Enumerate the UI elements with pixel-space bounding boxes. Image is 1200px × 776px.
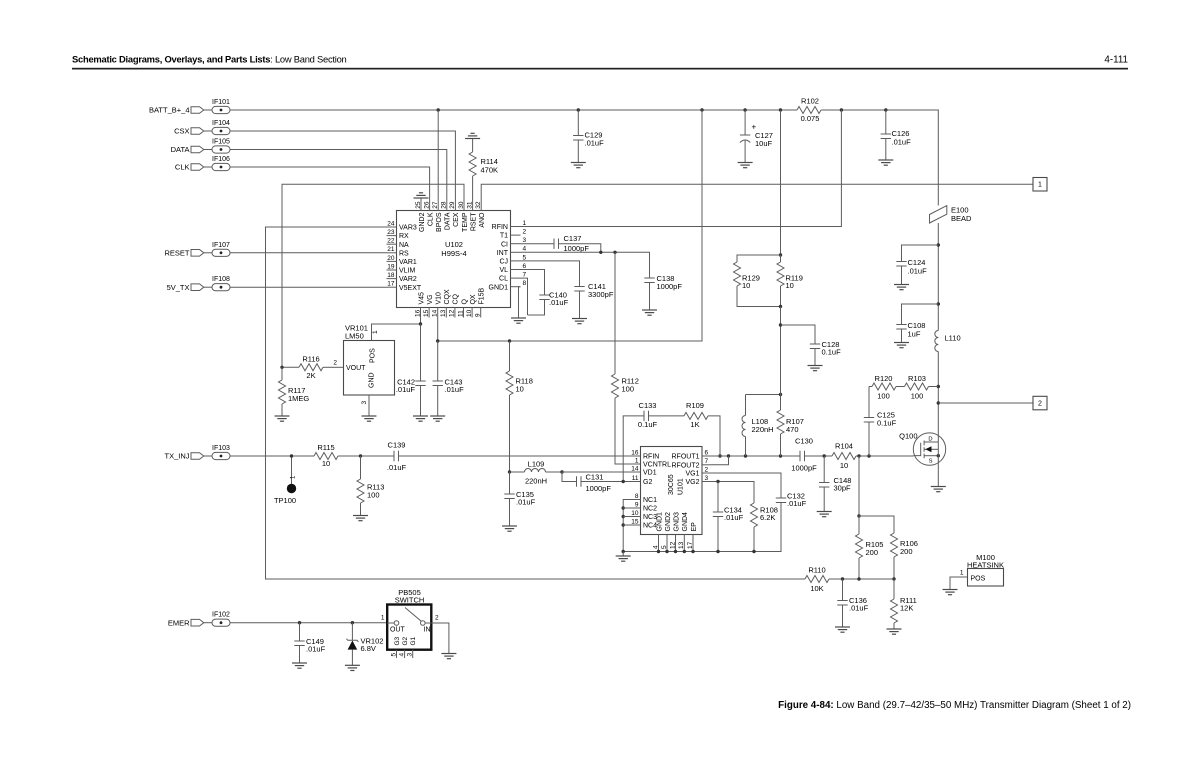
U102 pin 24 VAR3: [387, 220, 417, 231]
svg-text:NC2: NC2: [643, 506, 657, 513]
junction C127 tap: [743, 108, 746, 111]
svg-text:C133: C133: [639, 401, 657, 410]
capacitor C139: [387, 441, 407, 473]
capacitor C126: [881, 110, 911, 160]
wire CL pin 7 to C140 bottom: [521, 278, 528, 315]
svg-text:R104: R104: [835, 442, 853, 451]
capacitor C133: [623, 401, 684, 482]
U102 pin 2 T1: [500, 229, 527, 240]
svg-text:10: 10: [631, 510, 639, 517]
svg-text:200: 200: [866, 548, 879, 557]
test point TP100: [274, 456, 297, 505]
junction R113 top: [359, 454, 362, 457]
svg-text:GND3: GND3: [673, 512, 680, 532]
svg-text:TX_INJ: TX_INJ: [164, 452, 189, 461]
svg-text:R103: R103: [908, 374, 926, 383]
junction C137 to INT: [599, 251, 602, 254]
ground above R114: [465, 133, 480, 138]
svg-text:NC1: NC1: [643, 497, 657, 504]
wire INT pin 4 line: [521, 252, 650, 278]
junction rail NC bus: [622, 550, 625, 553]
svg-text:.01uF: .01uF: [908, 267, 928, 276]
svg-text:POS: POS: [971, 576, 986, 583]
inductor L109: [510, 460, 563, 486]
svg-text:11: 11: [632, 475, 639, 482]
svg-text:VAR2: VAR2: [399, 276, 417, 283]
U101 pin 16 RFIN: [631, 449, 660, 460]
switch PB505 lever: [405, 608, 421, 622]
svg-text:1000pF: 1000pF: [791, 464, 817, 473]
U101 pin 7 RFOUT2: [672, 458, 711, 469]
capacitor C128: [781, 325, 842, 366]
resistor R117: [279, 367, 310, 416]
svg-text:DATA: DATA: [171, 145, 190, 154]
svg-text:CSX: CSX: [174, 127, 189, 136]
svg-text:100: 100: [911, 392, 924, 401]
U102 pin 13 CQX: [440, 289, 451, 318]
capacitor C138: [644, 274, 682, 310]
wire NC bus: [623, 500, 630, 552]
wire L109 to VD1 pin 14: [562, 471, 631, 473]
wire C139 to U101 RFIN pin 16: [399, 455, 631, 457]
junction C126 tap: [884, 108, 887, 111]
wire RFOUT line: [711, 455, 801, 457]
U101 pin 15 NC4: [631, 518, 658, 529]
junction C128 tap: [779, 323, 782, 326]
svg-text:VLIM: VLIM: [399, 268, 416, 275]
svg-text:VL: VL: [499, 267, 508, 274]
svg-text:Schematic Diagrams, Overlays,: Schematic Diagrams, Overlays, and Parts …: [72, 54, 347, 65]
svg-text:D: D: [928, 437, 932, 443]
svg-text:29: 29: [449, 201, 456, 209]
wire VR101 GND pin 3 to ground: [368, 395, 370, 416]
ground under C149: [292, 663, 307, 668]
svg-text:IF106: IF106: [212, 156, 230, 163]
svg-text:9: 9: [475, 313, 482, 317]
svg-text:7: 7: [705, 458, 709, 465]
ground under C129: [571, 163, 586, 168]
ground under C108: [894, 343, 909, 348]
svg-text:1MEG: 1MEG: [288, 394, 309, 403]
switch PB505 pin 3 G1: [407, 636, 418, 658]
svg-text:1: 1: [372, 330, 379, 334]
connector IF101 (BATT_B+_4): [149, 99, 230, 115]
wire DATA to DATA pin 28: [230, 150, 447, 201]
svg-text:CLK: CLK: [175, 163, 190, 172]
svg-text:CJ: CJ: [499, 259, 508, 266]
U102 pin 11 Q: [457, 299, 468, 318]
wire VAR3 feedback loop: [266, 227, 806, 579]
svg-text:EP: EP: [691, 522, 698, 532]
junction V45/POS/C142: [419, 322, 422, 325]
wire TX_INJ from IF103: [230, 455, 314, 457]
svg-text:V10: V10: [436, 292, 443, 305]
svg-text:470K: 470K: [481, 166, 499, 175]
resistor R116: [282, 355, 335, 381]
svg-text:VG2: VG2: [685, 479, 699, 486]
svg-text:1000pF: 1000pF: [564, 244, 590, 253]
wire U101 ground rail: [623, 503, 781, 552]
ground under C124: [894, 285, 909, 290]
svg-text:0.1uF: 0.1uF: [822, 348, 842, 357]
wire to off-page connector 2: [938, 402, 1033, 404]
svg-text:27: 27: [432, 201, 439, 209]
svg-text:RFOUT1: RFOUT1: [672, 454, 700, 461]
svg-text:16: 16: [414, 309, 421, 317]
resistor R119: [777, 255, 803, 307]
svg-text:LM50: LM50: [345, 332, 364, 341]
svg-text:Q: Q: [461, 299, 468, 305]
svg-text:1000pF: 1000pF: [657, 282, 683, 291]
switch PB505 pin 4 G2: [398, 636, 409, 658]
svg-text:BPOS: BPOS: [436, 212, 443, 232]
svg-text:0.1uF: 0.1uF: [877, 419, 897, 428]
svg-text:12: 12: [669, 541, 676, 549]
ground under C135: [502, 526, 517, 531]
svg-text:12: 12: [449, 309, 456, 317]
svg-text:.01uF: .01uF: [849, 604, 869, 613]
svg-text:.01uF: .01uF: [396, 385, 416, 394]
svg-text:14: 14: [631, 465, 639, 472]
U101 pin 14 VD1: [631, 465, 657, 476]
wire Q100 source to ground: [937, 442, 939, 487]
svg-text:4: 4: [523, 246, 527, 253]
U102 pin 30 TEMP: [458, 201, 469, 232]
wire NC2 stub: [623, 507, 630, 509]
junction R129 top: [779, 253, 782, 256]
op-amp U102 H99S-4 synthesizer IC body: [397, 211, 511, 308]
svg-text:25: 25: [415, 201, 422, 209]
transistor U101 30C55 PA module body: [641, 447, 703, 535]
svg-text:Q100: Q100: [899, 432, 917, 441]
connector IF107 (RESET): [164, 242, 230, 258]
junction R109 to RFOUT1: [718, 454, 721, 457]
wire CLK to CLK pin 26: [230, 167, 430, 201]
wire C130 to R104: [805, 455, 833, 457]
resistor R105: [856, 516, 884, 579]
svg-text:6.8V: 6.8V: [361, 644, 376, 653]
svg-text:DATA: DATA: [445, 212, 452, 230]
svg-text:IF102: IF102: [212, 612, 230, 619]
junction L108/R107 top: [779, 393, 782, 396]
U102 pin 20 VAR1: [387, 255, 417, 266]
resistor R108: [751, 503, 778, 552]
svg-text:IF101: IF101: [212, 99, 230, 106]
U101 pin 5 GND2: [661, 512, 672, 552]
U102 pin 3 CI: [501, 237, 527, 248]
ground above GND2 pin 25: [414, 193, 429, 211]
resistor R118: [506, 341, 533, 472]
switch PB505 body: [387, 588, 431, 650]
svg-text:GND: GND: [369, 372, 376, 388]
svg-text:2: 2: [435, 615, 439, 622]
svg-text:GND4: GND4: [682, 512, 689, 532]
off-page connector 2: [1033, 396, 1047, 410]
svg-text:R110: R110: [808, 566, 825, 575]
svg-text:18: 18: [387, 272, 395, 279]
wire CSX to CEX pin 29: [230, 131, 455, 201]
svg-text:G2: G2: [643, 479, 652, 486]
ground under R113: [353, 516, 368, 521]
svg-text:5: 5: [390, 653, 397, 657]
svg-text:V5EXT: V5EXT: [399, 285, 422, 292]
ground under GND1: [511, 318, 526, 323]
svg-text:CEX: CEX: [453, 212, 460, 227]
svg-text:10K: 10K: [810, 584, 823, 593]
svg-text:RS: RS: [399, 250, 409, 257]
capacitor C108: [896, 304, 938, 343]
svg-text:1uF: 1uF: [908, 330, 921, 339]
svg-text:2: 2: [523, 229, 527, 236]
capacitor C130: [791, 437, 817, 473]
U102 pin 9 F15B: [475, 287, 486, 317]
U101 pin 8 NC1: [631, 493, 658, 504]
wire TEMP pin 30 to VR101 sense line: [282, 184, 464, 367]
wire NC3 stub: [623, 516, 630, 518]
svg-text:0.1uF: 0.1uF: [638, 420, 658, 429]
junction R107 bottom: [779, 454, 782, 457]
svg-text:.01uF: .01uF: [549, 298, 569, 307]
svg-text:IF105: IF105: [212, 139, 230, 146]
junction NC2: [622, 506, 625, 509]
svg-text:NC3: NC3: [643, 514, 657, 521]
svg-text:1: 1: [381, 615, 385, 622]
junction L109/C131/VD1: [560, 470, 563, 473]
svg-text:3: 3: [361, 401, 368, 405]
svg-text:RSET: RSET: [470, 212, 477, 231]
svg-text:26: 26: [423, 201, 430, 209]
svg-text:RFIN: RFIN: [492, 224, 508, 231]
svg-text:R120: R120: [875, 374, 893, 383]
svg-text:10: 10: [786, 281, 794, 290]
svg-text:5: 5: [661, 545, 668, 549]
svg-text:TEMP: TEMP: [462, 212, 469, 232]
svg-text:CLK: CLK: [427, 212, 434, 226]
svg-text:S: S: [929, 459, 933, 465]
wire BATT_B+ rail from IF101 to R102: [230, 109, 797, 111]
U102 pin 17 V5EXT: [387, 281, 422, 292]
junction C134 rail: [716, 550, 719, 553]
svg-text:2: 2: [705, 466, 709, 473]
U102 pin 1 RFIN: [492, 220, 527, 231]
ground under switch: [441, 654, 456, 659]
svg-text:1: 1: [635, 457, 639, 464]
junction R105 bottom: [857, 577, 860, 580]
U102 pin 28 DATA: [441, 201, 452, 231]
wire 5V_TX to V5EXT pin 17: [230, 286, 387, 288]
U101 pin 2 VG1: [685, 466, 710, 477]
svg-text:C139: C139: [388, 441, 406, 450]
svg-text:11: 11: [457, 310, 464, 317]
resistor R112: [612, 252, 639, 464]
zener diode VR102: [346, 623, 383, 666]
wire NC4 stub: [623, 524, 630, 526]
svg-text:VAR1: VAR1: [399, 259, 417, 266]
svg-text:3: 3: [523, 237, 527, 244]
ground under U101 rail: [616, 552, 631, 562]
svg-text:.01uF: .01uF: [445, 385, 465, 394]
svg-text:QX: QX: [470, 294, 477, 304]
wire gate tap down to R105/R106: [858, 456, 860, 516]
svg-text:10: 10: [840, 461, 848, 470]
off-page connector 1: [1033, 178, 1047, 192]
svg-text:R102: R102: [801, 97, 819, 106]
capacitor C131: [562, 472, 631, 493]
capacitor C137: [521, 234, 601, 253]
svg-text:10: 10: [742, 281, 750, 290]
svg-text:BEAD: BEAD: [951, 214, 972, 223]
capacitor C129: [573, 110, 604, 163]
U101 pin 10 NC3: [631, 510, 658, 521]
U102 pin 10 QX: [466, 294, 477, 317]
ground under C138: [642, 310, 657, 315]
junction rail EP: [691, 550, 694, 553]
svg-text:EMER: EMER: [168, 618, 190, 627]
svg-text:IF104: IF104: [212, 120, 230, 127]
svg-text:.01uF: .01uF: [892, 138, 912, 147]
heatsink M100 body: [967, 553, 1004, 586]
U102 pin 29 CEX: [449, 201, 460, 227]
inductor L108: [742, 395, 774, 457]
junction C148 tap: [823, 454, 826, 457]
U102 pin 31 RSET: [466, 201, 477, 232]
junction C125 tap: [867, 454, 870, 457]
ground under C142: [413, 416, 428, 421]
svg-text:17: 17: [387, 281, 395, 288]
junction INT to VCNTRL drop: [613, 251, 616, 254]
svg-text:U101: U101: [678, 478, 685, 495]
svg-text:6.2K: 6.2K: [760, 513, 775, 522]
capacitor C142: [396, 324, 426, 416]
U101 pin 13 GND4: [678, 512, 689, 552]
resistor R110: [805, 566, 829, 594]
svg-text:IF108: IF108: [212, 276, 230, 283]
svg-text:1K: 1K: [690, 420, 699, 429]
resistor R109: [684, 401, 720, 456]
capacitor C134: [713, 482, 744, 552]
U101 pin 3 VG2: [685, 475, 710, 486]
wire R115 to C139: [338, 455, 394, 457]
svg-text:470: 470: [786, 425, 799, 434]
svg-text:16: 16: [631, 449, 639, 456]
svg-text:24: 24: [387, 220, 395, 227]
switch PB505 pin 1 OUT: [381, 615, 406, 634]
junction after R102: [840, 108, 843, 111]
U101 pin 12 GND3: [669, 512, 680, 552]
svg-text:TP100: TP100: [274, 496, 296, 505]
junction TP100: [290, 454, 293, 457]
svg-text:14: 14: [432, 309, 439, 317]
junction R119 vertical tap: [779, 108, 782, 111]
svg-text:100: 100: [877, 392, 890, 401]
junction R129 bottom: [779, 305, 782, 308]
svg-text:INT: INT: [497, 250, 509, 257]
svg-text:T1: T1: [500, 233, 508, 240]
svg-text:17: 17: [687, 541, 694, 549]
svg-text:13: 13: [440, 309, 447, 317]
svg-text:10: 10: [466, 309, 473, 317]
svg-text:3: 3: [407, 653, 414, 657]
U101 pin 17 EP: [687, 522, 698, 552]
svg-text:6: 6: [705, 449, 709, 456]
capacitor C148: [819, 456, 851, 512]
svg-text:R109: R109: [686, 401, 704, 410]
svg-text:1000pF: 1000pF: [586, 484, 612, 493]
connector IF102 (EMER): [168, 612, 230, 628]
wire ANO pin 32 to off-page connector 1: [481, 184, 1033, 200]
U101 pin 6 RFOUT1: [672, 449, 711, 460]
resistor R103: [896, 374, 938, 401]
U102 pin 32 ANO: [475, 201, 486, 228]
svg-text:R115: R115: [317, 443, 334, 452]
svg-text:.01uF: .01uF: [724, 513, 744, 522]
svg-text:4-111: 4-111: [1104, 55, 1128, 66]
junction C108 tap: [937, 302, 940, 305]
svg-text:10: 10: [516, 385, 524, 394]
svg-text:30C65: 30C65: [668, 474, 675, 495]
svg-text:22: 22: [387, 238, 395, 245]
svg-text:32: 32: [475, 201, 482, 209]
wire VR101 VOUT pin 2: [335, 366, 344, 368]
U102 pin 14 V10: [432, 292, 443, 318]
svg-text:220nH: 220nH: [525, 477, 547, 486]
svg-text:RESET: RESET: [164, 248, 189, 257]
ground under C127: [738, 163, 753, 168]
svg-text:CQ: CQ: [453, 293, 460, 304]
inductor L110: [935, 331, 961, 443]
svg-text:VAR3: VAR3: [399, 225, 417, 232]
resistor R102: [797, 97, 821, 124]
junction C149 tap: [298, 621, 301, 624]
svg-text:POS: POS: [370, 348, 377, 363]
U101 pin 1 VCNTRL: [631, 457, 672, 468]
svg-text:.01uF: .01uF: [787, 499, 807, 508]
junction rail GND3: [674, 550, 677, 553]
U102 pin 4 INT: [497, 246, 527, 257]
ground under C148: [817, 512, 832, 517]
junction rail GND4: [683, 550, 686, 553]
svg-text:6: 6: [523, 263, 527, 270]
junction R105 chain tap: [857, 454, 860, 457]
svg-text:VCNTRL: VCNTRL: [643, 462, 671, 469]
wire V45 pin 16 to VR101 POS: [372, 318, 421, 341]
svg-text:.01uF: .01uF: [306, 645, 326, 654]
wire EMER to switch pin 1: [230, 622, 387, 624]
header rule: [72, 68, 1128, 70]
U102 pin 16 V45: [414, 292, 425, 318]
U102 pin 27 BPOS: [432, 201, 443, 232]
transistor Q100 N-MOSFET: [899, 432, 946, 466]
ground under M100: [943, 590, 958, 595]
svg-text:CL: CL: [499, 276, 508, 283]
junction NC4: [622, 523, 625, 526]
junction R103 node: [937, 385, 940, 388]
junction L108 bottom: [744, 454, 747, 457]
ground under VR101: [362, 416, 377, 421]
junction R116/R117/TEMP: [280, 366, 283, 369]
svg-text:RX: RX: [399, 233, 409, 240]
junction rail GND2: [665, 550, 668, 553]
svg-text:HEATSINK: HEATSINK: [967, 561, 1004, 570]
resistor R113: [357, 456, 384, 516]
wire L108 top to R107 net: [746, 394, 781, 396]
svg-text:2: 2: [333, 360, 337, 367]
svg-text:GND2: GND2: [665, 512, 672, 532]
svg-text:5: 5: [523, 254, 527, 261]
junction R106/R111 node: [892, 577, 895, 580]
U102 pin 22 NA: [387, 238, 410, 249]
wire bead to L110: [937, 223, 939, 331]
